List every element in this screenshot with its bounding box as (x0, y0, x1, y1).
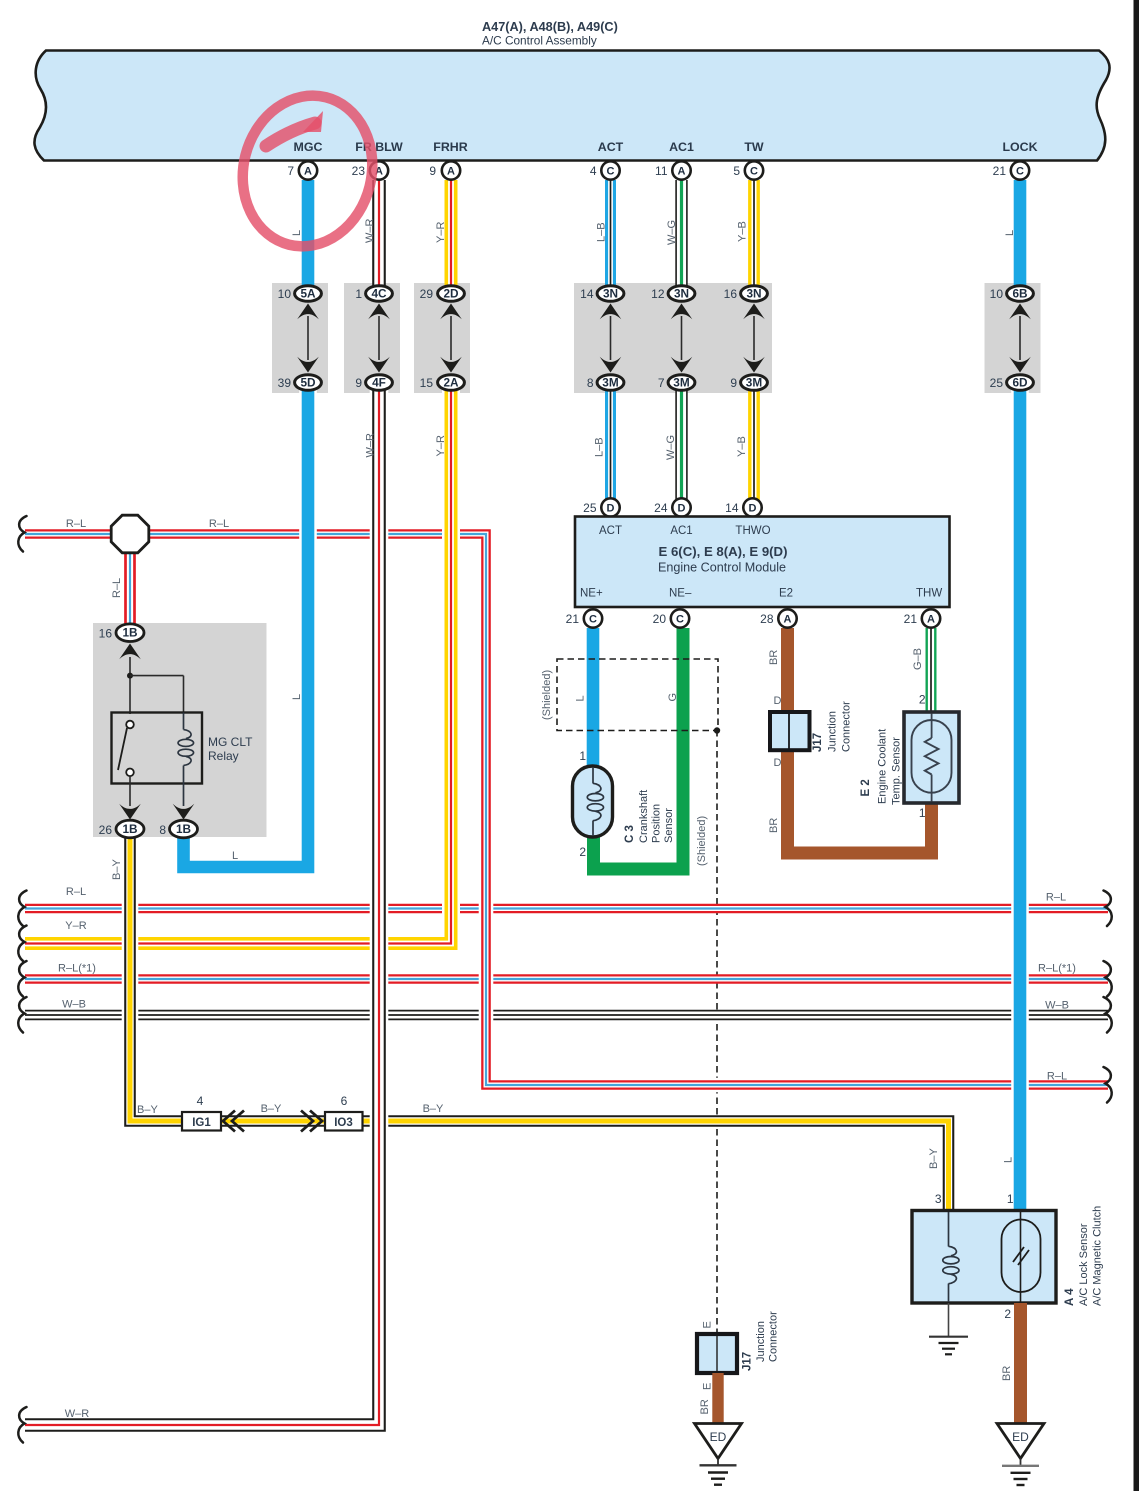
svg-text:L: L (232, 850, 238, 862)
svg-text:D: D (774, 757, 782, 769)
svg-text:J17: J17 (742, 1352, 754, 1371)
continuation mark R-L(*1) right (1104, 961, 1112, 997)
svg-text:1: 1 (355, 287, 362, 301)
svg-text:C: C (676, 614, 684, 626)
svg-text:R–L: R–L (209, 518, 229, 530)
svg-text:R–L: R–L (1046, 892, 1066, 904)
svg-text:15: 15 (420, 376, 434, 390)
svg-text:A: A (784, 614, 792, 626)
svg-text:11: 11 (655, 164, 668, 178)
pin circle ACT 4(C) (601, 161, 619, 179)
svg-text:1: 1 (579, 749, 586, 763)
IO3 fuse box (325, 1112, 363, 1131)
svg-text:3N: 3N (603, 287, 618, 301)
continuation mark R-L bottom right (1104, 1067, 1112, 1103)
svg-text:A/C Control Assembly: A/C Control Assembly (482, 34, 597, 48)
svg-text:16: 16 (724, 287, 738, 301)
ECM top pin circles 25(D) 24(D) 14(D) (601, 498, 619, 516)
wire G (green) NE- to C3 pin2 (594, 628, 684, 869)
svg-text:E 6(C), E 8(A), E 9(D): E 6(C), E 8(A), E 9(D) (659, 544, 788, 559)
svg-text:W–R: W–R (364, 219, 376, 244)
svg-text:1B: 1B (122, 626, 137, 640)
relay coil (183, 713, 185, 730)
relay internal wiring (129, 657, 131, 714)
svg-text:2: 2 (1004, 1307, 1011, 1321)
svg-text:G: G (667, 693, 679, 702)
svg-text:BR: BR (699, 1399, 711, 1414)
svg-text:26: 26 (99, 823, 113, 837)
svg-text:L: L (291, 230, 303, 236)
connector pair 5A/5D (295, 286, 322, 391)
svg-text:8: 8 (159, 823, 166, 837)
svg-text:THWO: THWO (735, 525, 770, 537)
shield dashed box around L and G (557, 659, 718, 731)
svg-text:Engine Control Module: Engine Control Module (658, 561, 786, 575)
pin circle AC1 11(A) (672, 161, 690, 179)
wire L (blue) MGC to relay (302, 180, 315, 293)
svg-text:R–L(*1): R–L(*1) (1038, 963, 1076, 975)
wire BR J17 to E2 sensor pin1 (788, 746, 932, 853)
svg-text:Y–R: Y–R (435, 222, 447, 243)
wire L (blue) NE+ to C3 (587, 628, 600, 770)
svg-text:Y–R: Y–R (435, 435, 447, 456)
svg-text:6: 6 (341, 1094, 348, 1108)
svg-text:E: E (702, 1383, 714, 1390)
gray inline-connector boxes (272, 283, 328, 393)
svg-text:ACT: ACT (599, 525, 622, 537)
svg-text:1B: 1B (176, 822, 191, 836)
shield junction dot (714, 727, 720, 733)
svg-text:9: 9 (355, 376, 362, 390)
svg-text:ED: ED (710, 1430, 727, 1444)
A4 coil (948, 1212, 950, 1247)
bus R-L (mid, full width) (25, 904, 1108, 914)
wire W-R from FR BLW connector (372, 180, 386, 293)
wire R-L splice down to relay (124, 550, 136, 626)
svg-text:E2: E2 (779, 588, 793, 600)
dashed shield drop line (716, 730, 718, 1334)
svg-text:B–Y: B–Y (137, 1104, 158, 1116)
svg-text:W–R: W–R (65, 1408, 90, 1420)
svg-text:7: 7 (287, 164, 294, 178)
svg-text:39: 39 (278, 376, 292, 390)
J17 junction connector (mid) (770, 712, 810, 750)
svg-text:L: L (1004, 230, 1016, 236)
wire BR J17 to ED ground (712, 1373, 723, 1425)
svg-text:3M: 3M (673, 376, 690, 390)
svg-text:R–L: R–L (66, 518, 86, 530)
bus W-B (25, 1010, 1108, 1021)
continuation mark R-L mid right (1104, 891, 1112, 927)
svg-text:A/C Lock Sensor: A/C Lock Sensor (1078, 1223, 1090, 1306)
svg-text:R–L: R–L (111, 578, 123, 598)
svg-text:9: 9 (730, 376, 737, 390)
svg-text:R–L: R–L (1047, 1071, 1067, 1083)
svg-text:25: 25 (990, 376, 1004, 390)
ECM bottom pin circles (584, 609, 602, 627)
wire R-L splice to right edge (down x486, right y1085) (148, 534, 1108, 1085)
wire B-Y from relay down, to IG1 (130, 835, 182, 1121)
svg-text:A: A (447, 166, 455, 178)
svg-text:IO3: IO3 (334, 1117, 353, 1129)
page right black border (1134, 0, 1139, 1491)
svg-text:Engine Coolant: Engine Coolant (877, 729, 889, 804)
svg-text:AC1: AC1 (669, 140, 694, 154)
pin circle LOCK 21(C) (1011, 161, 1029, 179)
svg-text:4: 4 (197, 1094, 204, 1108)
continuation mark R-L top left (18, 516, 26, 552)
ED ground triangle (left) (695, 1424, 742, 1459)
svg-text:C: C (1016, 166, 1024, 178)
svg-text:4: 4 (590, 164, 597, 178)
svg-text:(Shielded): (Shielded) (541, 670, 553, 720)
svg-text:3M: 3M (746, 376, 763, 390)
svg-text:10: 10 (990, 287, 1004, 301)
wire W-G AC1 (675, 180, 687, 293)
svg-text:B–Y: B–Y (261, 1103, 282, 1115)
svg-text:NE–: NE– (669, 588, 692, 600)
svg-text:C: C (750, 166, 758, 178)
svg-text:6D: 6D (1012, 376, 1028, 390)
svg-text:W–B: W–B (1045, 1000, 1069, 1012)
continuation mark R-L mid left (18, 891, 26, 927)
svg-text:2A: 2A (443, 376, 459, 390)
svg-text:5A: 5A (300, 287, 316, 301)
IG1 fuse box (182, 1112, 221, 1131)
connector pair 2D/2A (438, 286, 465, 391)
svg-text:C 3: C 3 (624, 825, 636, 843)
svg-text:L–B: L–B (594, 437, 606, 457)
relay bottom connectors 26(1B) 8(1B) (119, 804, 141, 820)
A4 coil case ground (948, 1303, 950, 1337)
continuation mark W-R bottom left (18, 1407, 26, 1443)
svg-text:MG CLT: MG CLT (208, 735, 253, 749)
svg-text:3M: 3M (602, 376, 619, 390)
svg-text:BR: BR (768, 650, 780, 665)
wire BR A4 pin2 to ED ground (1014, 1303, 1027, 1425)
connector pair 4C/4F (366, 286, 393, 391)
svg-text:W–G: W–G (666, 220, 678, 245)
svg-text:24: 24 (654, 501, 668, 515)
svg-text:D: D (774, 695, 782, 707)
svg-text:Crankshaft: Crankshaft (638, 790, 650, 843)
svg-text:W–R: W–R (365, 433, 377, 458)
svg-text:C: C (607, 166, 615, 178)
svg-text:21: 21 (904, 612, 918, 626)
svg-text:21: 21 (993, 164, 1007, 178)
svg-text:AC1: AC1 (670, 525, 692, 537)
wire B-Y IO3 to A4 pin3 (363, 1121, 949, 1212)
svg-text:10: 10 (278, 287, 292, 301)
svg-text:21: 21 (566, 612, 580, 626)
svg-text:BR: BR (1001, 1366, 1013, 1381)
svg-text:2: 2 (919, 693, 926, 707)
svg-text:25: 25 (583, 501, 597, 515)
svg-text:4F: 4F (372, 376, 386, 390)
svg-text:J17: J17 (812, 733, 824, 752)
pin circle FR BLW 23(A) (370, 161, 388, 179)
wire G-B THW to E2 sensor pin2 (926, 628, 937, 713)
svg-text:MGC: MGC (294, 140, 323, 154)
svg-text:14: 14 (725, 501, 739, 515)
wire R-L top-left to splice (25, 529, 112, 539)
ECM box E6/E8/E9 Engine Control Module (575, 517, 950, 608)
svg-text:L–B: L–B (596, 222, 608, 242)
svg-text:FRHR: FRHR (433, 140, 467, 154)
A4 lock sensor oval with slashes (1020, 1212, 1022, 1302)
svg-text:1B: 1B (122, 822, 137, 836)
svg-text:4C: 4C (371, 287, 387, 301)
wire L (blue) LOCK to A4 pin1 (1014, 180, 1027, 293)
svg-text:ACT: ACT (598, 140, 624, 154)
connector pair 3N/3M (ACT) (597, 286, 624, 391)
svg-text:ED: ED (1012, 1430, 1029, 1444)
pin circle MGC 7(A) (299, 161, 317, 179)
svg-text:5D: 5D (300, 376, 316, 390)
svg-text:TW: TW (744, 140, 764, 154)
svg-text:A/C Magnetic Clutch: A/C Magnetic Clutch (1092, 1206, 1104, 1306)
svg-text:20: 20 (653, 612, 667, 626)
svg-text:2: 2 (579, 845, 586, 859)
E2 engine coolant temp sensor (904, 712, 959, 803)
svg-text:16: 16 (99, 627, 113, 641)
svg-text:B–Y: B–Y (928, 1148, 940, 1169)
svg-text:L: L (575, 695, 587, 701)
svg-text:L: L (1003, 1157, 1015, 1163)
svg-text:9: 9 (429, 164, 436, 178)
svg-text:6B: 6B (1012, 287, 1027, 301)
continuation mark R-L(*1) left (18, 961, 26, 997)
svg-text:BR: BR (768, 818, 780, 833)
svg-text:12: 12 (651, 287, 665, 301)
svg-text:A: A (927, 614, 935, 626)
relay top connector 16(1B) (119, 644, 141, 660)
A/C control assembly band (34, 51, 1109, 161)
wire BR E2-pin to J17 (781, 628, 794, 716)
svg-text:Connector: Connector (841, 701, 853, 752)
ED ground triangle (right) (997, 1424, 1044, 1459)
svg-text:(Shielded): (Shielded) (696, 816, 708, 866)
wire B-Y IG1 to IO3 (221, 1115, 325, 1127)
arrows >> (301, 1111, 313, 1132)
svg-text:LOCK: LOCK (1002, 140, 1037, 154)
svg-text:Connector: Connector (768, 1311, 780, 1362)
J17 junction connector (bottom) (697, 1334, 737, 1373)
bus R-L(*1) (25, 974, 1108, 984)
A4 A/C lock sensor / magnetic clutch box (912, 1211, 1056, 1304)
svg-text:14: 14 (580, 287, 594, 301)
svg-text:E 2: E 2 (860, 779, 872, 796)
svg-text:D: D (749, 503, 757, 515)
svg-text:Y–B: Y–B (736, 436, 748, 457)
svg-text:E: E (702, 1321, 714, 1328)
svg-text:G–B: G–B (912, 648, 924, 670)
splice octagon (111, 515, 149, 553)
svg-text:D: D (678, 503, 686, 515)
svg-text:Junction: Junction (827, 711, 839, 752)
svg-text:3N: 3N (746, 287, 761, 301)
svg-text:1: 1 (1007, 1192, 1014, 1206)
svg-text:R–L(*1): R–L(*1) (58, 963, 96, 975)
svg-text:7: 7 (658, 376, 665, 390)
continuation mark W-B right (1104, 997, 1112, 1033)
svg-text:5: 5 (733, 164, 740, 178)
continuation mark Y-R left (18, 926, 26, 962)
relay switch box (112, 713, 203, 784)
svg-text:NE+: NE+ (580, 588, 603, 600)
wire L-B ACT (605, 180, 616, 293)
svg-text:C: C (589, 614, 597, 626)
wire Y-R from FRHR connector down then left to edge (445, 180, 458, 293)
svg-text:R–L: R–L (66, 886, 86, 898)
connector pair 6B/6D (1007, 286, 1034, 391)
svg-text:Temp. Sensor: Temp. Sensor (891, 737, 903, 805)
svg-text:28: 28 (760, 612, 774, 626)
svg-text:W–B: W–B (62, 999, 86, 1011)
svg-text:3: 3 (935, 1192, 942, 1206)
svg-text:Position: Position (651, 804, 663, 843)
svg-text:1: 1 (919, 806, 926, 820)
pin circle TW 5(C) (745, 161, 763, 179)
svg-text:A47(A), A48(B), A49(C): A47(A), A48(B), A49(C) (482, 20, 618, 34)
red annotation loop (227, 82, 388, 260)
svg-text:23: 23 (352, 164, 366, 178)
svg-text:D: D (607, 503, 615, 515)
svg-text:A: A (304, 166, 312, 178)
svg-text:Relay: Relay (208, 749, 239, 763)
arrows << (223, 1111, 235, 1132)
svg-text:W–G: W–G (665, 435, 677, 460)
svg-text:B–Y: B–Y (423, 1103, 444, 1115)
svg-text:A 4: A 4 (1064, 1288, 1076, 1306)
svg-text:Y–B: Y–B (737, 221, 749, 242)
svg-text:29: 29 (420, 287, 434, 301)
connector pair 3N/3M (AC1) (668, 286, 695, 391)
svg-text:8: 8 (587, 376, 594, 390)
svg-text:2D: 2D (443, 287, 459, 301)
svg-text:B–Y: B–Y (111, 859, 123, 880)
relay gray box (93, 623, 267, 837)
svg-text:THW: THW (916, 588, 942, 600)
wire Y-B TW (748, 180, 760, 293)
continuation mark W-B left (18, 997, 26, 1033)
connector pair 3N/3M (TW) (741, 286, 768, 391)
svg-text:3N: 3N (674, 287, 689, 301)
svg-text:L: L (291, 694, 303, 700)
C3 crankshaft position sensor body (573, 766, 613, 837)
svg-text:A: A (678, 166, 686, 178)
svg-text:IG1: IG1 (192, 1117, 211, 1129)
pin circle FRHR 9(A) (442, 161, 460, 179)
svg-text:Sensor: Sensor (663, 808, 675, 843)
svg-text:FR BLW: FR BLW (355, 140, 403, 154)
svg-text:Junction: Junction (755, 1321, 767, 1362)
svg-text:Y–R: Y–R (65, 920, 86, 932)
